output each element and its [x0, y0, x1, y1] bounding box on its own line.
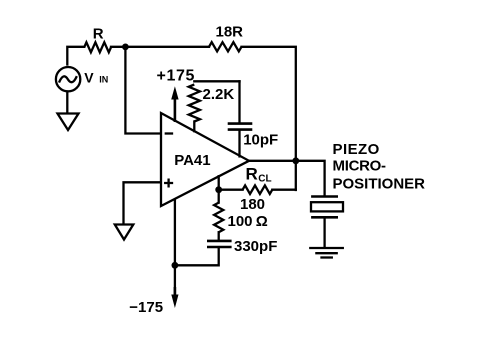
svg-text:CL: CL — [258, 174, 271, 185]
svg-text:POSITIONER: POSITIONER — [333, 176, 426, 193]
svg-text:2.2K: 2.2K — [203, 86, 235, 103]
svg-text:100: 100 — [228, 213, 253, 230]
svg-text:R: R — [93, 26, 104, 43]
svg-text:18R: 18R — [216, 24, 244, 41]
svg-text:IN: IN — [99, 75, 108, 85]
svg-text:MICRO-: MICRO- — [333, 158, 386, 175]
svg-text:R: R — [246, 165, 258, 184]
svg-text:PIEZO: PIEZO — [333, 141, 380, 158]
svg-text:V: V — [84, 70, 94, 86]
svg-text:Ω: Ω — [256, 213, 268, 230]
svg-text:330pF: 330pF — [234, 238, 277, 255]
svg-text:−175: −175 — [129, 299, 163, 316]
svg-text:10pF: 10pF — [243, 132, 278, 149]
svg-text:180: 180 — [240, 196, 265, 213]
svg-text:PA41: PA41 — [174, 152, 210, 169]
svg-text:+175: +175 — [157, 68, 195, 85]
